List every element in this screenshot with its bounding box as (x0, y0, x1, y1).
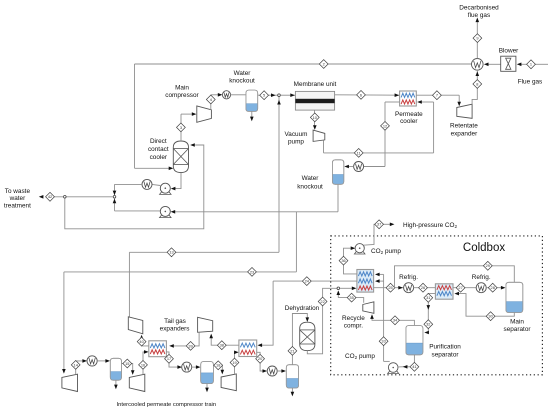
recycle compressor (363, 302, 374, 314)
stream diamond 10 (310, 113, 319, 122)
wire HX2 blue out to purification separator (427, 294, 436, 333)
stream diamond 26 (419, 283, 428, 292)
tail gas expander E1 (128, 317, 143, 334)
flue gas heat exchanger W (472, 59, 484, 71)
pump 1 (160, 192, 172, 195)
direct contact cooler vessel (173, 141, 188, 173)
refrigeration cooler 2 (476, 283, 486, 293)
wire compressor discharge to aftercooler (210, 95, 212, 110)
permeate cooler box (400, 91, 417, 106)
wire CO2 product line (363, 224, 375, 245)
svg-text:Main: Main (175, 85, 189, 92)
stream diamond 6 (357, 91, 366, 100)
stream diamond 14 (71, 361, 80, 370)
svg-text:1: 1 (530, 62, 532, 67)
wire retentate to permeate cooler (335, 94, 400, 96)
cooler W before KO2 (354, 162, 364, 172)
wire to waste treatment (66, 196, 113, 198)
wire C2 discharge to HX-A red (143, 352, 146, 374)
wire tail-gas recycle riser to membrane feed junction (278, 97, 280, 253)
stream diamond 33 (379, 337, 388, 346)
stream diamond 35 (347, 293, 356, 302)
svg-text:compressor: compressor (165, 92, 199, 99)
coldbox main exchanger HX1 (357, 270, 374, 293)
svg-text:5: 5 (263, 93, 265, 98)
svg-text:36: 36 (341, 258, 345, 263)
svg-text:separator: separator (432, 351, 460, 358)
wire row2 exit left (273, 280, 357, 282)
svg-text:Refrig.: Refrig. (472, 274, 491, 281)
intercooler W 2 (182, 362, 192, 372)
wire flue-gas loop top (mixer to DCC) (135, 63, 472, 65)
wire HX1 red row to refrig 1 (374, 287, 404, 289)
svg-text:35: 35 (349, 295, 353, 300)
wire main separator vapor return (395, 266, 515, 288)
stream diamond 3 (177, 123, 186, 132)
svg-text:32: 32 (426, 322, 430, 327)
stream diamond 4 (206, 95, 215, 104)
wire cooler to water knockout 1 (231, 94, 246, 96)
stream diamond 32 (410, 362, 419, 371)
wire coldbox row2 to HX-B blue (260, 281, 273, 345)
stream diamond 31a (424, 293, 433, 302)
stream diamond 30 (486, 312, 495, 321)
dehydration vessel (300, 322, 315, 350)
svg-text:8: 8 (476, 81, 478, 86)
pump 2 (160, 215, 172, 218)
wire E2 outlet to HX-A blue (172, 332, 199, 346)
svg-text:6: 6 (360, 92, 362, 97)
wire HX-B blue to E2 (211, 336, 239, 346)
wire KO-A to C2 (122, 364, 133, 372)
wire dehydration outlet to coldbox (307, 288, 336, 354)
stream diamond 25 (386, 283, 395, 292)
stream diamond 2 (319, 60, 328, 69)
stream diamond 28 (488, 283, 497, 292)
svg-text:13: 13 (169, 250, 173, 255)
stream diamond 29 (483, 261, 492, 270)
svg-text:cooler: cooler (400, 118, 418, 125)
stream diamond 12 (381, 122, 390, 131)
svg-text:Refrig.: Refrig. (399, 274, 418, 281)
svg-text:29: 29 (486, 263, 490, 268)
wire KO-C overhead to dehydration (292, 314, 307, 365)
stream diamond 9 (473, 34, 482, 43)
stream diamond 37 (375, 220, 384, 229)
aftercooler W (222, 91, 230, 99)
svg-text:contact: contact (148, 146, 169, 153)
svg-text:expander: expander (451, 130, 479, 137)
wire KO-B drain (206, 384, 208, 389)
wire KO1 vapor to membrane (258, 94, 279, 96)
wire HX-B red out to intercooler 3 (257, 352, 264, 371)
svg-text:compr.: compr. (344, 322, 363, 329)
svg-text:knockout: knockout (229, 78, 255, 85)
junction split (113, 196, 116, 199)
svg-text:11: 11 (357, 150, 361, 155)
membrane feed junction (278, 94, 281, 97)
svg-text:37: 37 (377, 222, 381, 227)
svg-text:9: 9 (476, 36, 478, 41)
membrane unit box (295, 91, 334, 110)
stream diamond 24 (302, 277, 311, 286)
svg-text:treatment: treatment (4, 202, 31, 209)
stream diamond 18 (214, 361, 223, 370)
svg-text:Retentate: Retentate (450, 123, 478, 130)
main compressor (197, 106, 212, 122)
svg-text:CO2 pump: CO2 pump (345, 353, 375, 360)
stream diamond 34 (391, 316, 400, 325)
water cooler W (142, 179, 152, 189)
retentate expander (457, 104, 472, 118)
wire DCC overhead to main compressor (180, 114, 182, 141)
wire C1 discharge to intercooler 1 (76, 361, 84, 374)
wire HX2 to refrig 2 (453, 287, 476, 289)
stream diamond 20 (256, 354, 265, 363)
stream diamond 38 (217, 341, 226, 350)
stream diamond 8 (473, 80, 482, 89)
svg-text:Dehydration: Dehydration (285, 305, 320, 312)
svg-text:knockout: knockout (297, 184, 323, 191)
svg-text:19: 19 (232, 360, 236, 365)
wire purification overhead to recycle compressor (372, 317, 414, 326)
svg-text:27: 27 (458, 285, 462, 290)
wire blower to exchanger (488, 63, 501, 65)
stream diamond 7 (433, 91, 442, 100)
stream diamond 22 (318, 297, 327, 306)
svg-text:Main: Main (510, 319, 524, 326)
svg-text:18: 18 (216, 363, 220, 368)
wire to bottom CO2 pump (384, 360, 390, 362)
stream diamond 15 (123, 359, 132, 368)
svg-text:3: 3 (180, 125, 182, 130)
wire dehydrated feed junction into HX1 red (337, 287, 340, 290)
svg-text:31: 31 (426, 295, 430, 300)
heat exchanger HX-B (239, 340, 257, 357)
wire KO-B to C3 (213, 365, 222, 371)
wire KO-C drain (291, 388, 293, 393)
svg-text:cooler: cooler (150, 154, 168, 161)
wire HX-A blue to E1 (142, 337, 149, 346)
stream diamond 36 (339, 256, 348, 265)
svg-text:12: 12 (383, 123, 387, 128)
svg-text:28: 28 (491, 285, 495, 290)
wire flue gas inlet (535, 63, 548, 65)
stream diamond 31 (424, 320, 433, 329)
svg-text:41: 41 (412, 364, 416, 369)
wire water recycle to DCC top (65, 145, 204, 229)
svg-text:CO2 pump: CO2 pump (371, 248, 401, 255)
wire pump1 through cooler to junction (152, 184, 160, 185)
intercooler W 3 (267, 366, 277, 376)
svg-text:Direct: Direct (150, 138, 167, 145)
svg-text:High-pressure CO2: High-pressure CO2 (403, 222, 458, 229)
top CO2 pump (354, 251, 365, 254)
svg-text:21: 21 (290, 348, 294, 353)
stream diamond waste (46, 192, 55, 201)
svg-text:39: 39 (188, 343, 192, 348)
svg-text:26: 26 (421, 285, 425, 290)
svg-text:pump: pump (288, 139, 304, 146)
svg-text:25: 25 (388, 285, 392, 290)
svg-text:33: 33 (381, 339, 385, 344)
wire KO1 water drain (251, 111, 253, 117)
svg-text:Water: Water (234, 70, 252, 77)
svg-text:flue gas: flue gas (468, 12, 490, 19)
stream diamond 16 (139, 361, 148, 370)
stream diamond 13 (167, 248, 176, 257)
wire membrane permeate to vacuum pump (314, 110, 316, 127)
svg-text:Decarbonised: Decarbonised (459, 5, 499, 12)
svg-text:Water: Water (302, 175, 320, 182)
svg-text:Purification: Purification (429, 343, 461, 350)
wire purification bottoms to CO2 pump (413, 355, 415, 363)
wire main separator bottoms to HX2 blue (458, 294, 514, 317)
svg-text:separator: separator (504, 326, 532, 333)
coldbox exchanger HX2 (435, 284, 453, 299)
compressor C2 (129, 374, 145, 391)
stream diamond 23 (248, 268, 257, 277)
stream diamond 19 (230, 358, 239, 367)
blower box (501, 56, 516, 71)
svg-text:15: 15 (125, 361, 129, 366)
svg-text:Recycle: Recycle (342, 315, 365, 322)
stream diamond 40 (137, 337, 146, 346)
svg-text:Membrane unit: Membrane unit (294, 81, 337, 88)
svg-text:Flue gas: Flue gas (518, 78, 543, 85)
wire cooled permeate to water knockout 2 (385, 101, 400, 103)
svg-text:expanders: expanders (160, 326, 190, 333)
stream diamond 27 (456, 283, 465, 292)
wire retentate to expander (416, 94, 459, 96)
svg-text:Vacuum: Vacuum (285, 131, 308, 138)
wire KO2 drain / compressor feed (337, 184, 339, 212)
coldbox dashed boundary (331, 236, 543, 375)
svg-text:2: 2 (323, 61, 325, 66)
wire DCC bottoms to pump 1 (175, 173, 182, 189)
wire pump riser into HX1 rows (383, 274, 385, 361)
wire vacuum pump discharge (323, 140, 325, 153)
wire refrig2 to main separator (486, 287, 502, 289)
bottom CO2 pump (388, 371, 399, 374)
wire HX1 row1 to top CO2 pump (344, 248, 357, 274)
svg-text:To waste: To waste (5, 188, 31, 195)
wire decarbonised flue gas out (476, 43, 478, 59)
refrigeration cooler 1 (404, 283, 414, 293)
svg-text:Blower: Blower (499, 48, 519, 55)
wire HX-A red out to intercooler 2 (166, 352, 178, 367)
wire expander outlet to flue-gas exchanger (472, 71, 477, 105)
wire KO-A drain (115, 380, 117, 386)
svg-text:16: 16 (141, 362, 145, 367)
stream diamond 17 (165, 354, 174, 363)
wire recycle compressor discharge (338, 298, 363, 303)
vacuum pump (313, 130, 325, 141)
tail gas expander E2 (198, 317, 213, 332)
svg-text:42: 42 (48, 194, 52, 199)
svg-text:38: 38 (220, 343, 224, 348)
compressor C3 (221, 374, 236, 391)
stream diamond 1 (527, 60, 536, 69)
wire C3 discharge to HX-B red (235, 352, 237, 374)
stream diamond 21 (288, 347, 297, 356)
wire refrig1 to HX2 (414, 287, 436, 289)
svg-text:22: 22 (320, 299, 324, 304)
svg-text:23: 23 (250, 269, 254, 274)
stream diamond 11 (354, 149, 363, 158)
svg-text:Intercooled permeate compresso: Intercooled permeate compressor train (117, 402, 217, 408)
heat exchanger HX-A (149, 341, 167, 357)
intercooler W 1 (87, 356, 97, 366)
svg-text:Coldbox: Coldbox (463, 242, 505, 254)
stream diamond 5 (260, 91, 269, 100)
svg-text:7: 7 (436, 93, 438, 98)
svg-text:Permeate: Permeate (395, 111, 423, 118)
svg-text:17: 17 (167, 356, 171, 361)
stream diamond 39 (186, 342, 195, 351)
compressor C1 (62, 374, 78, 391)
svg-text:Tail gas: Tail gas (164, 318, 186, 325)
svg-text:water: water (9, 195, 26, 202)
